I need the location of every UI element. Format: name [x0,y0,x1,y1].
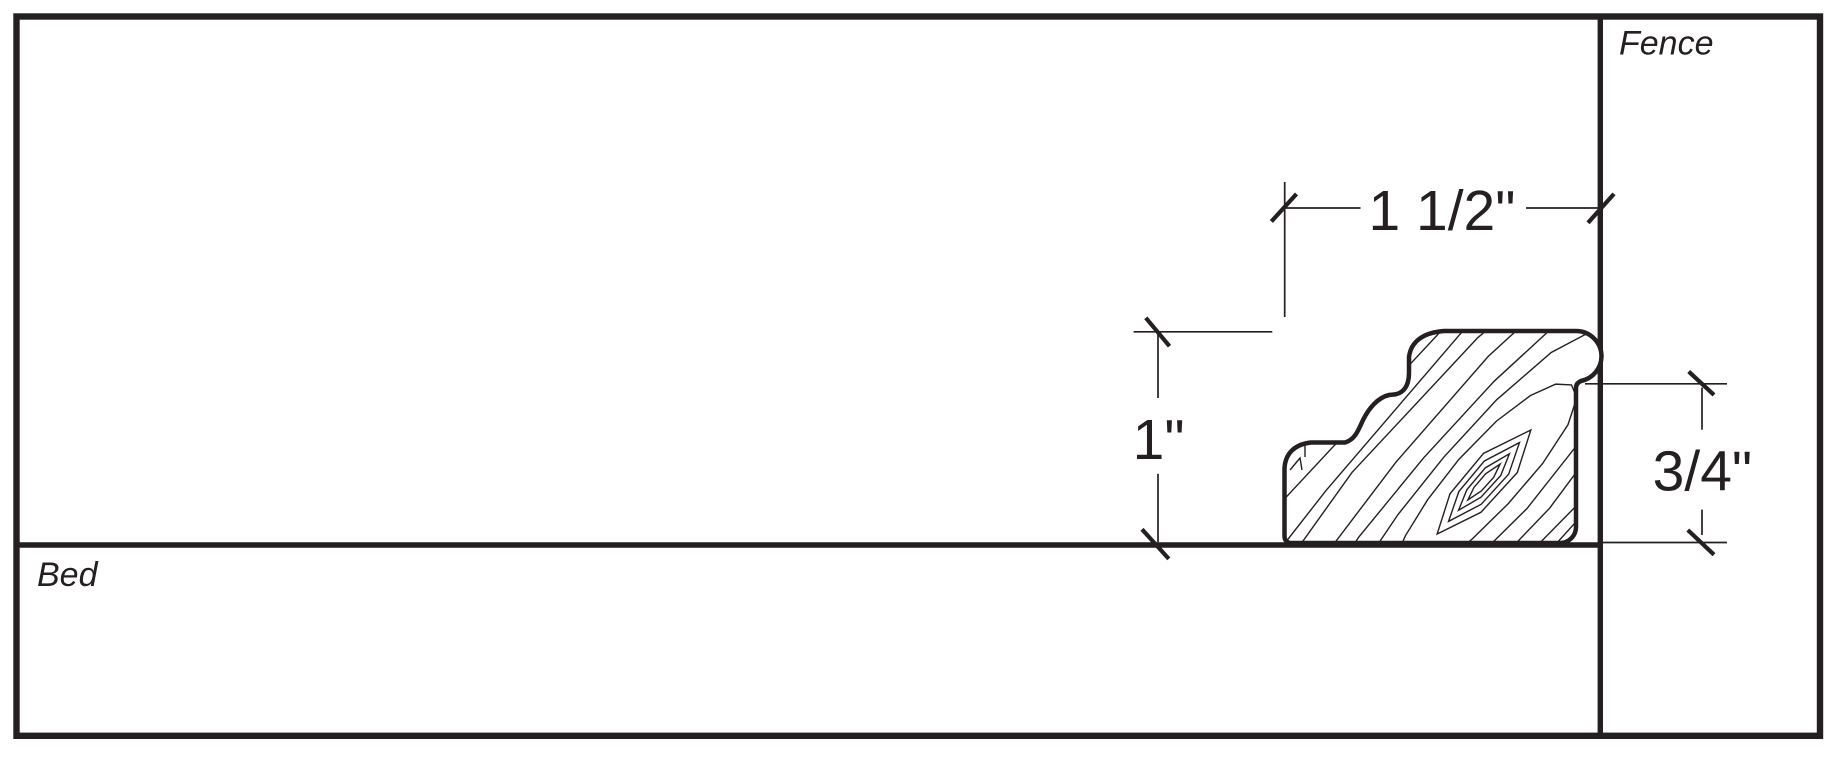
svg-text:Fence: Fence [1619,25,1714,63]
svg-text:1 1/2": 1 1/2" [1368,179,1515,243]
svg-text:3/4": 3/4" [1653,440,1752,504]
svg-text:Bed: Bed [37,556,99,594]
svg-text:1": 1" [1133,408,1185,472]
